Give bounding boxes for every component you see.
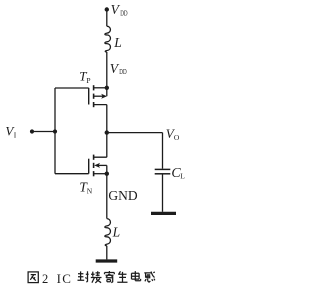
- TN source lead: [94, 173, 107, 175]
- wire TN source to inductor L2: [106, 174, 108, 219]
- input junction dot: [53, 129, 57, 133]
- caption char FENG (封): [78, 271, 89, 282]
- inductor L1: [105, 26, 111, 52]
- inductor L2: [105, 219, 111, 246]
- wire capacitor to ground: [162, 175, 164, 212]
- wire output node to VO corner: [107, 132, 163, 134]
- caption char DIAN (电): [132, 271, 141, 281]
- VDD terminal dot: [105, 7, 109, 11]
- svg-text:V: V: [111, 2, 121, 17]
- ground bar (bottom): [96, 259, 118, 262]
- TP bulk-source tie: [106, 88, 108, 96]
- TN gate lead: [55, 173, 89, 175]
- svg-text:L: L: [112, 225, 121, 240]
- TP gate bar: [88, 88, 90, 105]
- input wire VI: [32, 131, 55, 133]
- svg-text:L: L: [113, 35, 122, 50]
- label TN: [79, 179, 92, 195]
- wire VDD terminal to inductor L1: [106, 10, 108, 27]
- svg-text:P: P: [86, 76, 90, 85]
- caption char ZHUANG (装): [91, 271, 102, 283]
- label VO: [166, 126, 180, 142]
- TP bulk lead with arrow: [94, 95, 103, 97]
- transistor TN (NMOS): [55, 133, 107, 177]
- node dot VDD/TP source: [105, 86, 109, 90]
- svg-text:V: V: [110, 61, 120, 76]
- svg-text:I: I: [14, 131, 17, 140]
- svg-text:L: L: [180, 171, 185, 180]
- TN gate bar: [88, 159, 90, 174]
- label TP: [79, 69, 90, 85]
- wire L2 to ground: [106, 246, 108, 260]
- wire VO corner down to capacitor: [162, 133, 164, 169]
- svg-text:N: N: [87, 186, 93, 195]
- TN channel bars: [93, 155, 95, 177]
- caption char GAN (感): [144, 272, 155, 283]
- label VDD (top): [111, 2, 128, 17]
- svg-text:DD: DD: [119, 67, 127, 76]
- TN bulk-source tie: [106, 165, 108, 173]
- caption char SHENG (生): [117, 271, 127, 282]
- transistor TP (PMOS): [55, 85, 107, 132]
- caption char JI (寄): [105, 271, 115, 283]
- svg-text:DD: DD: [120, 8, 128, 17]
- svg-text:GND: GND: [108, 188, 137, 203]
- TN drain lead: [94, 133, 107, 158]
- TN source node dot: [105, 172, 109, 176]
- caption char TU (图): [28, 272, 38, 283]
- input riser wire: [54, 88, 56, 174]
- label VI: [5, 124, 16, 140]
- caption: 图 2 IC 封装寄生电感: [28, 271, 155, 286]
- wire L1 to TP source node: [106, 52, 108, 88]
- TP gate lead: [55, 87, 89, 89]
- label CL: [171, 166, 185, 181]
- capacitor CL: [155, 169, 171, 173]
- svg-text:2: 2: [42, 272, 48, 286]
- TN bulk lead with arrow: [98, 164, 107, 166]
- svg-text:O: O: [174, 133, 180, 142]
- input terminal dot: [30, 129, 34, 133]
- svg-text:IC: IC: [57, 271, 73, 286]
- TP source lead: [94, 87, 107, 89]
- output node dot: [105, 130, 109, 134]
- TP drain lead: [94, 105, 107, 133]
- label VDD (below L1): [110, 61, 127, 76]
- TP channel bars: [93, 85, 95, 107]
- ground bar (right, under CL): [151, 212, 176, 215]
